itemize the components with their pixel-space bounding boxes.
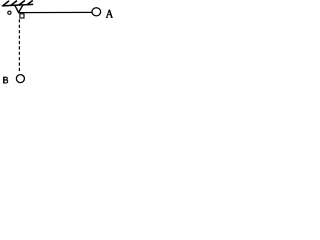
dashed vertical line OB — [18, 19, 20, 71]
label A — [106, 10, 113, 18]
label o — [8, 11, 11, 14]
label B — [3, 77, 8, 83]
ball B — [16, 75, 24, 83]
ceiling line — [2, 4, 33, 6]
pivot V bracket — [15, 5, 23, 12]
line OA — [18, 11, 92, 13]
right-angle mark — [20, 14, 24, 18]
hatch mark 1 — [3, 1, 9, 6]
hatch mark 3 — [19, 1, 25, 6]
hatch mark 4 — [27, 0, 33, 5]
ball A — [92, 8, 101, 16]
hatch mark 2 — [11, 1, 17, 6]
